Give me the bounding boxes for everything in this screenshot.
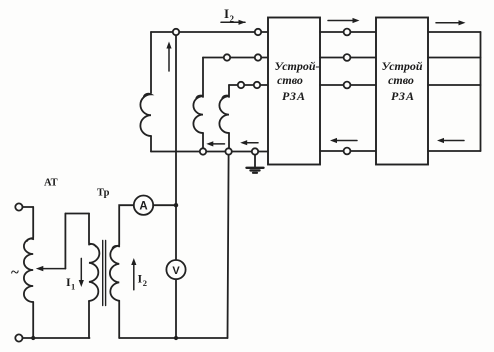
wire tap top to Tp primary xyxy=(65,213,89,215)
wire CT3 bottom to rail 4 xyxy=(228,133,230,148)
autotransformer AT coil xyxy=(24,238,33,302)
label I2 with up arrow (secondary) xyxy=(133,262,135,290)
svg-text:Тр: Тр xyxy=(97,188,110,199)
svg-text:I: I xyxy=(224,6,229,21)
wire top rail 1 xyxy=(151,31,267,33)
arrow left above rail D (right of U2) xyxy=(441,140,464,142)
terminal circle rail1 node A xyxy=(173,29,179,35)
terminal circle rail3 at box1 xyxy=(254,82,260,88)
label I2 (secondary current) xyxy=(224,6,235,24)
wire rail D between boxes xyxy=(320,150,376,152)
terminal circle rail4 ground node xyxy=(252,148,258,154)
wire rail-1 left drop to CT1 xyxy=(150,32,152,93)
AT tap arrow xyxy=(40,268,65,270)
current transformer secondary TA1 coil xyxy=(140,94,151,136)
wire input top xyxy=(23,206,34,208)
label ~ (ac source) xyxy=(11,265,19,281)
wire CT2 spine upper xyxy=(202,58,204,98)
wire Tp secondary spine bottom xyxy=(118,301,120,338)
transformer Tp primary winding xyxy=(89,244,99,301)
junction dot voltmeter bottom xyxy=(174,336,178,340)
transformer Tp core xyxy=(102,241,104,306)
relay protection device U2 (box) xyxy=(376,18,428,165)
wire rail C between boxes xyxy=(320,84,376,86)
svg-text:РЗА: РЗА xyxy=(282,89,306,103)
wire bottom rail 4 xyxy=(151,151,267,153)
wire AT spine bottom xyxy=(32,302,34,338)
terminal circle rail A between boxes xyxy=(344,29,351,36)
ammeter PA xyxy=(134,196,153,215)
wire rail B right of U2 xyxy=(428,57,481,59)
svg-text:1: 1 xyxy=(71,282,75,292)
svg-text:2: 2 xyxy=(143,278,147,288)
wire top rail 2 xyxy=(203,57,267,59)
relay protection device U1 (box) xyxy=(268,18,320,165)
wire rail D right of U2 xyxy=(428,150,481,152)
arrow under I2 pointing right xyxy=(221,21,245,23)
svg-text:АТ: АТ xyxy=(44,178,58,189)
wire bottom right rail (secondary circuit) xyxy=(119,337,227,339)
terminal circle rail D between boxes xyxy=(344,148,351,155)
wire CT1 bottom to rail 4 xyxy=(150,136,152,152)
label Tp (transformer) xyxy=(97,188,110,199)
svg-text:Устрой-: Устрой- xyxy=(274,59,319,73)
junction dot AT bottom xyxy=(31,336,35,340)
svg-text:Устрой: Устрой xyxy=(381,59,422,73)
wire right riser closing loop xyxy=(480,32,482,151)
arrow right above rail A (right of U2) xyxy=(436,22,461,24)
svg-text:A: A xyxy=(139,201,147,213)
wire CT3 spine upper xyxy=(228,85,230,97)
arrow up along line A xyxy=(168,45,170,71)
label AT (autotransformer) xyxy=(44,178,58,189)
arrow left on rail 4 (inner) xyxy=(210,143,225,145)
svg-text:РЗА: РЗА xyxy=(391,89,415,103)
terminal circle rail4 CT2 node xyxy=(200,148,206,154)
terminal circle rail1 at box1 xyxy=(255,29,261,35)
svg-text:V: V xyxy=(172,265,180,277)
terminal circle rail2 mid xyxy=(224,54,230,60)
current transformer secondary TA2 coil xyxy=(193,96,203,133)
junction dot ammeter node xyxy=(174,203,178,207)
wire CT2 bottom to rail 4 xyxy=(202,133,204,148)
wire rail A right of U2 xyxy=(428,31,481,33)
wire vertical line B (CT3 node down to bottom rail) xyxy=(228,155,229,338)
wire rail A between boxes xyxy=(320,31,376,33)
wire rail B between boxes xyxy=(320,57,376,59)
wire bottom left (AT to Tp primary) xyxy=(23,337,90,339)
wire line A voltmeter to bottom rail xyxy=(175,279,177,338)
svg-text:ство: ство xyxy=(388,73,414,87)
voltmeter PV xyxy=(166,260,185,279)
label I1 with down arrow xyxy=(80,258,82,283)
wire Tp primary spine top xyxy=(88,214,90,243)
svg-text:~: ~ xyxy=(11,265,19,281)
wire AT spine top xyxy=(32,207,34,237)
current transformer secondary TA3 coil xyxy=(219,96,229,133)
terminal circle rail2 at box1 xyxy=(255,54,261,60)
terminal circle rail3 mid xyxy=(238,82,244,88)
arrow left on rail 4 (outer) xyxy=(244,142,258,144)
terminal circle rail B between boxes xyxy=(344,54,351,61)
wire line A below junction to voltmeter xyxy=(175,205,177,260)
terminal circle rail4 CT3 node xyxy=(225,148,231,154)
terminal circle input bottom xyxy=(15,334,22,341)
arrow left above rail D (between boxes) xyxy=(334,140,357,142)
terminal circle rail C between boxes xyxy=(344,82,351,89)
wire Tp primary spine bottom xyxy=(88,301,90,338)
wire tap riser xyxy=(64,214,66,269)
ground symbol xyxy=(254,155,256,167)
arrow right above rail A (between boxes) xyxy=(328,20,355,22)
svg-text:ство: ство xyxy=(277,73,303,87)
svg-text:I: I xyxy=(138,272,143,286)
wire rail C right of U2 xyxy=(428,84,481,86)
wire ammeter to line A xyxy=(153,204,176,206)
wire Tp secondary spine top (to ammeter) xyxy=(119,205,134,245)
transformer Tp secondary winding xyxy=(110,246,119,301)
wire top rail 3 xyxy=(229,84,267,86)
wire vertical line A (to ammeter junction) xyxy=(175,35,177,205)
terminal circle input top xyxy=(15,203,22,210)
